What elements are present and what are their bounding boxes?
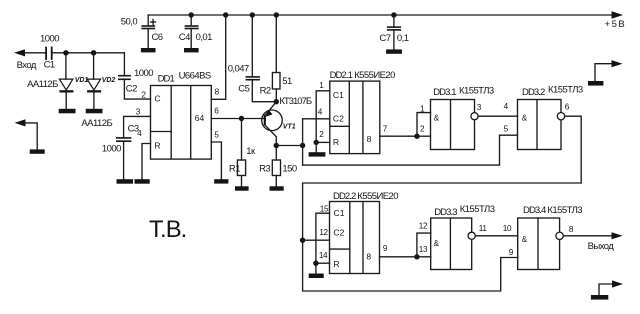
node DD2.2 R tie — [313, 261, 318, 266]
svg-text:0,1: 0,1 — [397, 33, 409, 44]
ground C7 — [386, 49, 402, 53]
ground DD1 pin4 — [135, 179, 150, 184]
capacitor C4 — [185, 15, 199, 48]
svg-text:1000: 1000 — [40, 33, 59, 44]
output terminal arrow Выход — [612, 232, 623, 239]
svg-text:DD3.3: DD3.3 — [434, 207, 457, 218]
gate DD3.3 К155ТЛ3 — [431, 218, 476, 270]
svg-text:1000: 1000 — [134, 68, 153, 79]
svg-text:15: 15 — [320, 205, 329, 214]
svg-text:0,01: 0,01 — [196, 32, 213, 43]
svg-text:DD2.2: DD2.2 — [333, 191, 356, 202]
svg-text:DD3.2: DD3.2 — [522, 87, 545, 98]
svg-text:1к: 1к — [246, 146, 256, 157]
shield terminal arrow — [15, 119, 38, 149]
resistor R2 — [272, 15, 280, 102]
capacitor C7 — [387, 15, 401, 49]
diode VD1 — [59, 53, 73, 109]
node rail-C7 — [391, 12, 396, 17]
svg-text:R: R — [154, 141, 160, 151]
svg-text:U664BS: U664BS — [179, 71, 211, 82]
svg-text:К555ИЕ20: К555ИЕ20 — [354, 70, 395, 81]
svg-text:150: 150 — [282, 163, 296, 174]
IC counter DD2.2 К555ИЕ20 — [330, 202, 380, 274]
wire output — [563, 235, 612, 237]
wire DD2.2 pin15 tie — [316, 213, 330, 263]
terminal arrow bottom right — [599, 280, 623, 295]
wire input line — [53, 52, 125, 54]
wire clock to DD2.1 C2 — [303, 118, 330, 120]
wire DD2.1 pin1 tie — [316, 91, 330, 143]
wire collector to clock node — [276, 145, 302, 147]
svg-text:DD3.1: DD3.1 — [433, 87, 456, 98]
svg-text:DD1: DD1 — [158, 74, 175, 85]
svg-text:12: 12 — [319, 228, 328, 237]
svg-text:&: & — [434, 239, 440, 248]
input terminal arrow Вход — [14, 49, 46, 56]
wire DD2.1 tie to ground — [315, 142, 317, 152]
svg-text:R3: R3 — [259, 163, 270, 174]
node VD2 — [91, 50, 96, 55]
svg-text:R1: R1 — [229, 163, 240, 174]
node feedback DD2.2 C2 — [300, 238, 305, 243]
svg-text:R: R — [333, 137, 339, 147]
capacitor C5 — [246, 15, 277, 102]
ground DD1 pin5 — [214, 179, 228, 183]
wire DD2.1 pin7 output — [380, 135, 417, 137]
wire DD3.1 out to DD3.2 — [478, 115, 517, 117]
svg-text:Т.В.: Т.В. — [149, 216, 186, 243]
wire DD3.3 pin12 tie — [417, 233, 431, 257]
ground terminal top right — [588, 81, 603, 86]
ground R3 — [270, 186, 284, 190]
node VD1 — [63, 50, 68, 55]
ground DD2.2 — [309, 274, 324, 279]
wire DD2.2 tie to ground — [315, 263, 317, 273]
svg-text:С4: С4 — [179, 32, 190, 43]
svg-text:С2: С2 — [126, 84, 137, 95]
svg-text:АА112Б: АА112Б — [81, 118, 112, 129]
svg-text:14: 14 — [319, 251, 328, 260]
wire +5V rail — [148, 14, 612, 16]
wire clock to DD3.2 pin5 — [303, 135, 518, 165]
wire DD1 pin4 to ground — [142, 144, 151, 180]
node DD2.1 R tie — [314, 140, 319, 145]
wire DD2.2 pin9 output — [380, 256, 417, 258]
resistor R1 — [237, 119, 245, 187]
node R1 tap — [239, 116, 244, 121]
svg-text:C1: C1 — [333, 90, 344, 100]
svg-text:КТ3107Б: КТ3107Б — [279, 96, 311, 107]
svg-text:С5: С5 — [238, 84, 249, 95]
diode VD2 — [87, 53, 101, 109]
wire DD3.1 pin2 — [417, 135, 431, 137]
svg-text:&: & — [522, 235, 528, 244]
IC counter DD2.1 К555ИЕ20 — [330, 81, 380, 154]
svg-text:+ 5 В: + 5 В — [605, 19, 625, 30]
svg-text:R: R — [333, 259, 339, 269]
ground R1 — [235, 186, 249, 190]
wire DD2.2 pin14 — [316, 262, 330, 264]
svg-text:10: 10 — [503, 224, 512, 233]
ground C3 — [117, 179, 134, 184]
svg-text:12: 12 — [419, 222, 428, 231]
node DD3.1 input tie — [414, 134, 419, 139]
wire DD3.1 pin1 tie — [417, 113, 431, 137]
gate DD3.4 К155ТЛ3 — [518, 218, 564, 270]
svg-text:VT1: VT1 — [283, 123, 296, 130]
svg-text:1000: 1000 — [102, 144, 121, 155]
svg-text:&: & — [522, 114, 528, 123]
capacitor C1 — [45, 47, 52, 60]
node clock line — [300, 143, 305, 148]
wire DD3.3 out to DD3.4 — [475, 235, 517, 237]
svg-text:С1: С1 — [44, 59, 55, 70]
svg-text:C2: C2 — [333, 227, 344, 237]
wire DD1 pin6 to base VT1 — [211, 118, 264, 120]
gate DD3.1 К155ТЛ3 — [431, 100, 479, 150]
svg-text:C: C — [154, 94, 160, 104]
svg-text:C1: C1 — [334, 208, 345, 218]
wire DD3.3 pin13 — [417, 256, 431, 258]
node collector junction — [274, 143, 279, 148]
ground shield terminal — [30, 149, 45, 153]
svg-text:АА112Б: АА112Б — [27, 79, 58, 90]
capacitor C6 — [141, 15, 155, 48]
svg-text:C2: C2 — [333, 114, 344, 124]
svg-text:64: 64 — [195, 113, 205, 123]
ground C6 — [141, 48, 156, 52]
ground terminal bottom right — [591, 295, 608, 300]
svg-text:К555ИЕ20: К555ИЕ20 — [357, 191, 398, 202]
capacitor C2 — [118, 53, 151, 99]
svg-text:51: 51 — [282, 76, 292, 87]
svg-text:0,047: 0,047 — [228, 63, 249, 74]
svg-text:8: 8 — [367, 134, 372, 144]
node rail-pin8 — [223, 12, 228, 17]
node rail-C5 — [250, 12, 255, 17]
wire DD1 pin8 to rail — [211, 15, 225, 99]
svg-text:К155ТЛ3: К155ТЛ3 — [459, 86, 494, 97]
svg-text:DD3.4: DD3.4 — [523, 205, 546, 216]
node rail-R2 — [274, 12, 279, 17]
svg-text:Вход: Вход — [17, 60, 37, 71]
ground C4 — [184, 48, 199, 52]
svg-text:11: 11 — [479, 224, 488, 233]
svg-text:К155ТЛ3: К155ТЛ3 — [547, 205, 582, 216]
gate DD3.2 К155ТЛ3 — [518, 100, 565, 150]
svg-text:&: & — [434, 114, 440, 123]
ground VD2 — [86, 109, 103, 114]
node emitter-R2-C5 — [274, 99, 279, 104]
svg-text:К155ТЛ3: К155ТЛ3 — [548, 85, 583, 96]
terminal arrow top right — [595, 60, 623, 81]
wire DD1 pin3 — [124, 116, 151, 137]
ground VD1 — [59, 109, 76, 114]
svg-text:VD2: VD2 — [102, 77, 116, 84]
svg-text:8: 8 — [366, 251, 371, 261]
svg-text:VD1: VD1 — [75, 77, 89, 84]
svg-text:DD2.1: DD2.1 — [330, 70, 353, 81]
svg-text:С7: С7 — [379, 33, 390, 44]
wire clock vertical — [302, 119, 304, 165]
capacitor C3 — [116, 137, 131, 179]
svg-text:50,0: 50,0 — [121, 17, 138, 28]
wire DD2.1 pin2 — [316, 141, 330, 143]
transistor VT1 КТ3107Б — [262, 102, 283, 146]
node rail-C4 — [189, 12, 194, 17]
svg-text:К155ТЛ3: К155ТЛ3 — [460, 204, 495, 215]
svg-text:С6: С6 — [152, 32, 163, 43]
wire DD2.2 pin12 — [303, 239, 330, 241]
svg-text:Выход: Выход — [588, 241, 615, 252]
wire DD1 pin5 to ground — [211, 142, 221, 179]
wire feedback DD3.2 out — [303, 116, 582, 291]
svg-text:R2: R2 — [260, 86, 271, 97]
ground DD2.1 — [309, 152, 326, 156]
resistor R3 — [272, 146, 280, 187]
node DD3.3 input tie — [414, 254, 419, 259]
svg-text:13: 13 — [419, 245, 428, 254]
+5V terminal arrow — [612, 11, 624, 18]
IC U664BS DD1 — [151, 86, 212, 160]
